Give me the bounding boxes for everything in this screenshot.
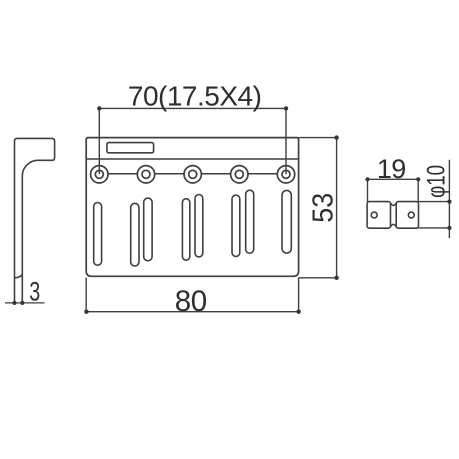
dimension 80 line <box>86 311 298 313</box>
label rectangle <box>107 143 154 153</box>
svg-text:φ10: φ10 <box>423 165 451 198</box>
saddle left hole <box>371 212 377 218</box>
line through holes <box>108 173 277 175</box>
hole 3 <box>184 166 201 183</box>
hole 5 <box>277 166 294 183</box>
saddle left block <box>367 202 390 229</box>
dimension 70 extension lines <box>99 108 286 174</box>
slot 8 <box>282 190 291 253</box>
svg-text:19: 19 <box>377 154 406 184</box>
dimension 53 line <box>336 138 338 278</box>
svg-text:3: 3 <box>29 276 40 306</box>
saddle neck top curve <box>391 203 397 206</box>
dimension 80 dots <box>84 310 301 314</box>
dimension 70 dots <box>97 106 288 110</box>
side view left edge <box>15 138 55 302</box>
slot 5 <box>195 195 203 257</box>
dimension 19 extension lines <box>368 179 419 202</box>
hole 1 <box>91 166 108 183</box>
dimension 19 line <box>368 178 419 180</box>
slots <box>94 190 292 266</box>
hole 4 <box>231 166 248 183</box>
dimension 19 dots <box>365 177 420 181</box>
dimension 3 line <box>5 302 45 304</box>
svg-text:53: 53 <box>308 193 340 223</box>
side view bottom arc <box>15 274 23 278</box>
svg-text:80: 80 <box>175 285 207 318</box>
slot 1 <box>94 203 102 266</box>
dimension phi10 dots <box>447 200 451 230</box>
hole 2 <box>137 166 154 183</box>
string holes <box>91 166 295 183</box>
slot 3 <box>144 198 152 261</box>
svg-text:70(17.5X4): 70(17.5X4) <box>128 80 262 111</box>
dimension phi10 extension lines <box>419 202 450 228</box>
dimension 70 line <box>99 107 286 109</box>
dimension phi10 line <box>448 160 450 238</box>
slot 4 <box>182 199 189 261</box>
separator line <box>86 158 298 160</box>
dimension 80 extension lines <box>86 278 298 312</box>
dimension 53 dots <box>334 135 338 280</box>
slot 7 <box>246 190 254 253</box>
main plate outline <box>86 138 298 277</box>
saddle right block <box>396 202 418 229</box>
saddle neck bottom curve <box>391 224 397 227</box>
slot 2 <box>131 203 139 266</box>
dimension 3 dots <box>12 301 24 305</box>
saddle right hole <box>408 212 414 218</box>
dimension 53 extension lines <box>299 138 337 278</box>
slot 6 <box>232 195 240 257</box>
